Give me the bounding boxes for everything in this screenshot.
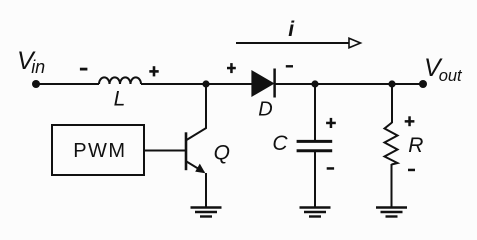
polarity plus (capacitor) [326,118,336,128]
polarity minus (inductor left) [80,68,88,71]
current arrow i [236,38,361,48]
polarity plus (resistor) [405,116,415,126]
polarity minus (diode cathode) [286,65,293,67]
polarity plus (diode anode) [227,63,236,73]
wire collector vertical [205,84,207,129]
resistor R zigzag [385,123,398,165]
svg-text:R: R [408,134,423,157]
wire capacitor top [314,84,316,141]
wire Vin to inductor [36,83,99,85]
wire capacitor bottom [314,151,316,207]
capacitor C plates [297,141,333,150]
wire resistor top [391,84,393,123]
wire inductor to diode [141,83,252,85]
node collector junction [202,80,209,87]
PWM box [52,125,144,175]
wire diode to Vout [275,83,423,85]
svg-text:L: L [114,88,126,111]
ground (resistor) [376,208,407,217]
transistor Q base bar [185,132,188,170]
ground (capacitor) [300,208,331,217]
node resistor junction [388,80,395,87]
wire emitter vertical [205,173,207,207]
transistor Q collector diagonal [187,128,207,140]
inductor L [99,77,141,84]
diode D [251,69,274,98]
node Vin terminal [32,80,40,88]
svg-text:D: D [258,98,272,120]
svg-text:PWM: PWM [73,140,126,162]
svg-text:Q: Q [214,141,230,164]
polarity minus (resistor) [408,169,415,172]
transistor Q emitter diagonal [187,162,205,173]
transistor Q emitter arrow [195,164,205,174]
node Vout terminal [419,80,427,88]
node capacitor junction [311,80,318,87]
wire resistor bottom [391,164,393,207]
svg-text:C: C [272,132,288,155]
wire PWM to base [144,150,186,152]
ground (transistor emitter) [191,208,222,217]
polarity minus (capacitor) [327,167,334,170]
polarity plus (inductor right) [149,66,158,76]
